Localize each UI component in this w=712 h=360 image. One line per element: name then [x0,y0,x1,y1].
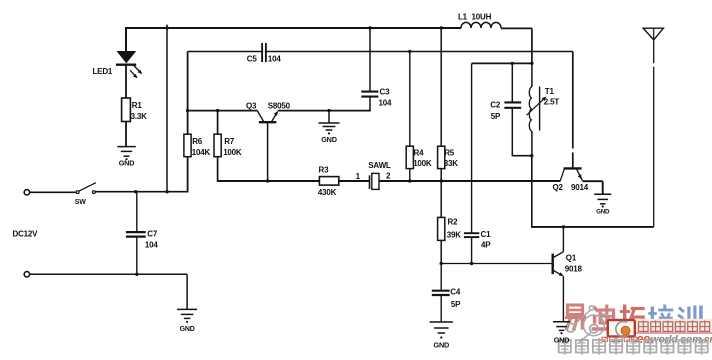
wire C7 to return rail [136,237,138,274]
capacitor C2 [504,102,521,107]
wire C5 feedback rail [188,51,573,53]
watermark cream band [608,319,712,334]
svg-text:104: 104 [268,55,281,64]
svg-text:C1: C1 [481,230,492,239]
svg-text:1: 1 [356,172,361,181]
node R2 bottom junction [440,262,443,265]
svg-text:C2: C2 [490,100,501,109]
node GND stub junction [327,109,330,112]
antenna ANT [643,28,663,40]
wire return rail [30,273,187,275]
watermark eeworld url [637,332,651,346]
svg-text:GND: GND [554,335,570,344]
wire R6 to bottom rail [187,157,189,193]
wire switch lead [30,191,76,193]
label C2 5P [490,100,501,121]
svg-text:R2: R2 [448,218,459,227]
terminal DC minus [24,272,29,277]
wire C2 vertical [511,63,513,102]
resistor R2 [438,217,445,240]
resistor R7 [214,134,221,157]
wire main bus segment 2 [339,180,370,182]
wire tank bottom [512,155,532,157]
svg-text:R5: R5 [444,148,455,157]
watermark pink hanzi row [639,322,649,332]
wire box bottom rail [532,226,654,228]
wire tank top [472,62,532,64]
svg-text:GND: GND [433,341,449,350]
wire L1 drop to tank [531,28,533,63]
svg-text:R1: R1 [132,101,143,110]
wire L1 right lead [501,27,532,29]
svg-text:C5: C5 [247,55,258,64]
label R7 100K [223,137,242,157]
inductor L1 [461,22,501,28]
svg-text:10UH: 10UH [472,12,492,21]
wire switch to circuit [95,191,187,193]
wire C1 vertical [471,63,473,232]
wire Q1 base wire [441,263,553,265]
inductor T1 [527,63,547,155]
transistor Q3 [257,111,278,181]
label C5 104 [247,55,282,64]
svg-text:430K: 430K [318,188,337,197]
label L1 10UH [458,12,492,21]
svg-text:9018: 9018 [565,265,583,274]
wire R2 to base wire [440,240,442,263]
wire R4 vertical top [409,52,411,147]
resistor R3 [319,177,338,186]
svg-text:GND: GND [321,135,337,144]
watermark underline [636,332,712,334]
node R5 bottom junction [440,179,443,182]
node C1 base junction [470,262,473,265]
svg-text:R4: R4 [414,148,425,157]
svg-text:DC12V: DC12V [13,230,39,239]
label C7 104 [145,230,158,250]
label Q3 S8050 [246,101,291,110]
wire C3 to base bus [369,97,371,111]
label T1 2.5T [544,87,560,107]
wire R4 to main bus [409,169,411,181]
wire C4 to ground [440,296,442,322]
capacitor C4 [432,291,450,295]
wire C2 to tank bottom [511,109,513,157]
svg-text:100K: 100K [223,148,242,157]
wire GND stub [328,111,330,123]
svg-text:33K: 33K [444,159,458,168]
wire antenna feeder [653,40,655,227]
watermark grey bottom text [559,340,571,353]
svg-text:104: 104 [379,98,392,107]
svg-text:Q3: Q3 [246,101,257,110]
svg-text:2.5T: 2.5T [544,98,560,107]
wire R7 branch vertical [217,111,219,135]
wire LED anode drop [125,27,127,51]
label Q2 9014 [553,183,589,192]
svg-text:C4: C4 [450,288,461,297]
label SAWL pins [356,161,391,181]
resistor R5 [438,146,445,168]
label R3 430K [318,166,337,197]
wire C1 to base wire [471,238,473,264]
svg-text:Q1: Q1 [566,253,577,262]
svg-text:R6: R6 [192,137,203,146]
watermark tiny red row [602,337,607,341]
ground GND6 Q1 emitter [553,322,570,345]
wire main bus segment 3 [379,180,560,182]
svg-text:GND: GND [119,158,135,167]
svg-text:C3: C3 [380,87,391,96]
wire top power rail [126,27,461,29]
capacitor C1 [464,233,479,237]
wire LED cathode to R1 [125,66,127,98]
svg-text:SAWL: SAWL [368,161,391,170]
svg-text:L1: L1 [458,12,468,21]
node R5 rail junction [440,26,443,29]
svg-text:3.3K: 3.3K [131,112,148,121]
switch SW [76,183,96,194]
ground GND4 [430,322,454,350]
node tank bottom [530,154,533,157]
node C7 bottom junction [135,273,138,276]
node Q3 base junction [266,179,269,182]
terminal DC plus [24,190,29,195]
svg-text:9014: 9014 [571,183,589,192]
wire return to ground [186,274,188,309]
wire C7 vertical [136,192,138,232]
svg-text:R3: R3 [319,166,330,175]
node left bus bottom junction [165,190,168,193]
wire base bus right [278,110,371,112]
wire C3 vertical [369,27,371,91]
LED LED1 [116,51,142,78]
svg-text:T1: T1 [545,87,555,96]
ground GND2 [319,123,340,144]
node R4 top junction [408,50,411,53]
label C1 4P [481,230,492,250]
label R4 100K [413,148,432,168]
node rail junction A [165,26,168,29]
ground GND5 [177,309,197,333]
svg-text:GND: GND [596,209,610,216]
node base bus junction [186,109,189,112]
wire R7 to main bus [217,157,219,182]
wire C4 vertical [440,264,442,291]
node R4 bottom junction [408,179,411,182]
resistor R1 [122,98,131,122]
node tank top left [511,62,514,65]
svg-text:5P: 5P [451,300,461,309]
watermark big text yidituo [565,305,586,331]
node C7 top junction [134,190,137,193]
svg-text:S8050: S8050 [268,101,291,110]
svg-text:Q2: Q2 [553,183,564,192]
label R2 39K [447,218,461,240]
label C3 104 [379,87,392,107]
wire R5 to main bus [440,169,442,181]
svg-text:SW: SW [75,199,86,206]
wire left vertical bus [166,25,168,192]
wire R5 vertical top [440,28,442,146]
watermark grey logo [583,315,604,336]
capacitor C5 [261,43,267,62]
svg-text:104: 104 [145,240,158,249]
label R1 3.3K [131,101,148,121]
svg-text:LED1: LED1 [93,67,113,76]
node tank top right [530,62,533,65]
label LED1 [93,67,113,76]
transistor Q2 [560,168,602,194]
svg-text:5P: 5P [491,112,501,121]
node Q1 collector junction [562,225,565,228]
wire tank to box bottom [531,156,533,228]
wire R2 vertical top [440,181,442,217]
label SW [75,199,86,206]
wire right vertical to Q2 [572,52,574,168]
wire base bus left [187,110,258,112]
svg-text:R7: R7 [224,137,235,146]
resistor R6 [184,134,191,157]
ground GND3 [594,194,611,215]
wire R1 to ground [125,122,127,147]
svg-text:4P: 4P [481,241,491,250]
watermark eeworld logo [608,320,635,336]
svg-text:C7: C7 [147,230,158,239]
ground GND1 [117,147,136,168]
svg-text:GND: GND [180,326,195,333]
transistor Q1 [553,227,564,322]
svg-text:104K: 104K [192,148,211,157]
node C3 rail junction [368,26,371,29]
filter SAWL [370,173,380,189]
svg-text:100K: 100K [413,159,432,168]
label R5 33K [444,148,458,168]
capacitor C7 [126,232,146,237]
node R7 top junction [216,109,219,112]
label DC12V [13,230,39,239]
svg-text:39K: 39K [447,231,461,240]
label Q1 9018 [565,253,583,273]
label C4 5P [450,288,461,309]
wire main bus segment 1 [218,180,320,182]
resistor R4 [406,146,413,168]
label R6 104K [192,137,211,157]
watermark big text peixun blue [648,305,673,330]
wire R6 branch vertical [187,52,189,135]
capacitor C3 [361,92,378,97]
